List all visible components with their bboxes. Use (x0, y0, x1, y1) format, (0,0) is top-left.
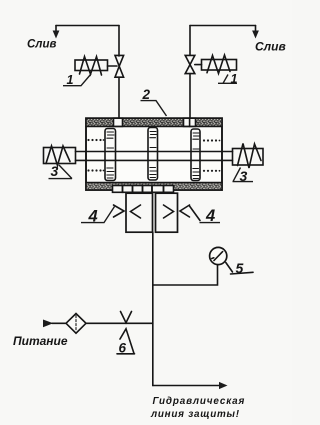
nozzle chevron right-in (164, 205, 174, 218)
spring zigzag right 1 (207, 55, 230, 74)
wire valve2-to-block right (189, 74, 191, 119)
svg-text:линия защиты!: линия защиты! (150, 409, 240, 420)
wire left drop to valve (118, 26, 120, 57)
wire valve1-to-block left (118, 77, 120, 118)
drain arrow left (55, 26, 57, 32)
port dots right row1 (203, 139, 221, 141)
svg-text:Питание: Питание (13, 334, 68, 348)
top band cell A (114, 118, 123, 126)
spring box right (component 3) (233, 149, 264, 166)
wire top-left horizontal (56, 25, 119, 27)
wire valve2-to-box (195, 64, 202, 66)
spool S1 (105, 129, 116, 181)
spool S3 (191, 129, 200, 181)
top band hatched (87, 119, 221, 126)
svg-text:6: 6 (119, 341, 127, 356)
svg-text:Гидравлическая: Гидравлическая (153, 396, 246, 407)
main line below boxes (152, 232, 154, 386)
coupling upper V (component 6) (121, 312, 132, 323)
svg-text:2: 2 (142, 87, 151, 102)
wire supply right (86, 322, 153, 324)
spring zigzag right 3 (238, 144, 262, 169)
spool rod through block (76, 151, 233, 153)
port dots left row2 (87, 169, 104, 171)
leader arrow 4 left (114, 205, 125, 217)
valve V2 right (shutoff bowtie) (185, 55, 195, 64)
svg-text:3: 3 (51, 163, 59, 179)
svg-text:Слив: Слив (255, 40, 286, 54)
valve V1 left (shutoff bowtie) (115, 55, 124, 66)
supply arrow (43, 320, 53, 328)
distributor block U2 body (86, 118, 222, 190)
nozzle box right (component 4) (156, 193, 178, 232)
bottom arrow wire (153, 385, 220, 387)
solenoid box right (component 1) (202, 60, 237, 71)
wire supply left (52, 322, 66, 324)
leader 5 (226, 263, 233, 273)
filter F1 (66, 314, 86, 334)
top band cell B (184, 118, 196, 126)
nozzle box left (component 4) (126, 193, 153, 232)
wire top-right horizontal (190, 25, 256, 27)
svg-text:5: 5 (236, 260, 244, 276)
coupling lower caret + leader 6 (120, 329, 134, 354)
port dots left row1 (87, 139, 104, 141)
wire right drop to valve (189, 26, 191, 56)
gauge branch wire (153, 265, 218, 285)
port dots right row2 (203, 170, 221, 172)
nozzle chevron left-in (131, 205, 141, 218)
svg-text:Слив: Слив (27, 39, 56, 51)
drain arrow right (255, 26, 257, 32)
leader arrow 4 right (180, 205, 190, 217)
wire box1-to-valve left (108, 65, 118, 67)
spring zigzag left 1 (80, 57, 102, 76)
spring zigzag left 3 (46, 146, 70, 166)
bottom band hatched (87, 183, 221, 189)
spring box left (component 3) (44, 148, 76, 164)
svg-text:1: 1 (67, 73, 74, 87)
spool S2 (148, 128, 158, 181)
solenoid box left (component 1) (75, 60, 108, 71)
pressure gauge 5 (210, 247, 227, 264)
bottom band teeth cells (112, 185, 174, 192)
